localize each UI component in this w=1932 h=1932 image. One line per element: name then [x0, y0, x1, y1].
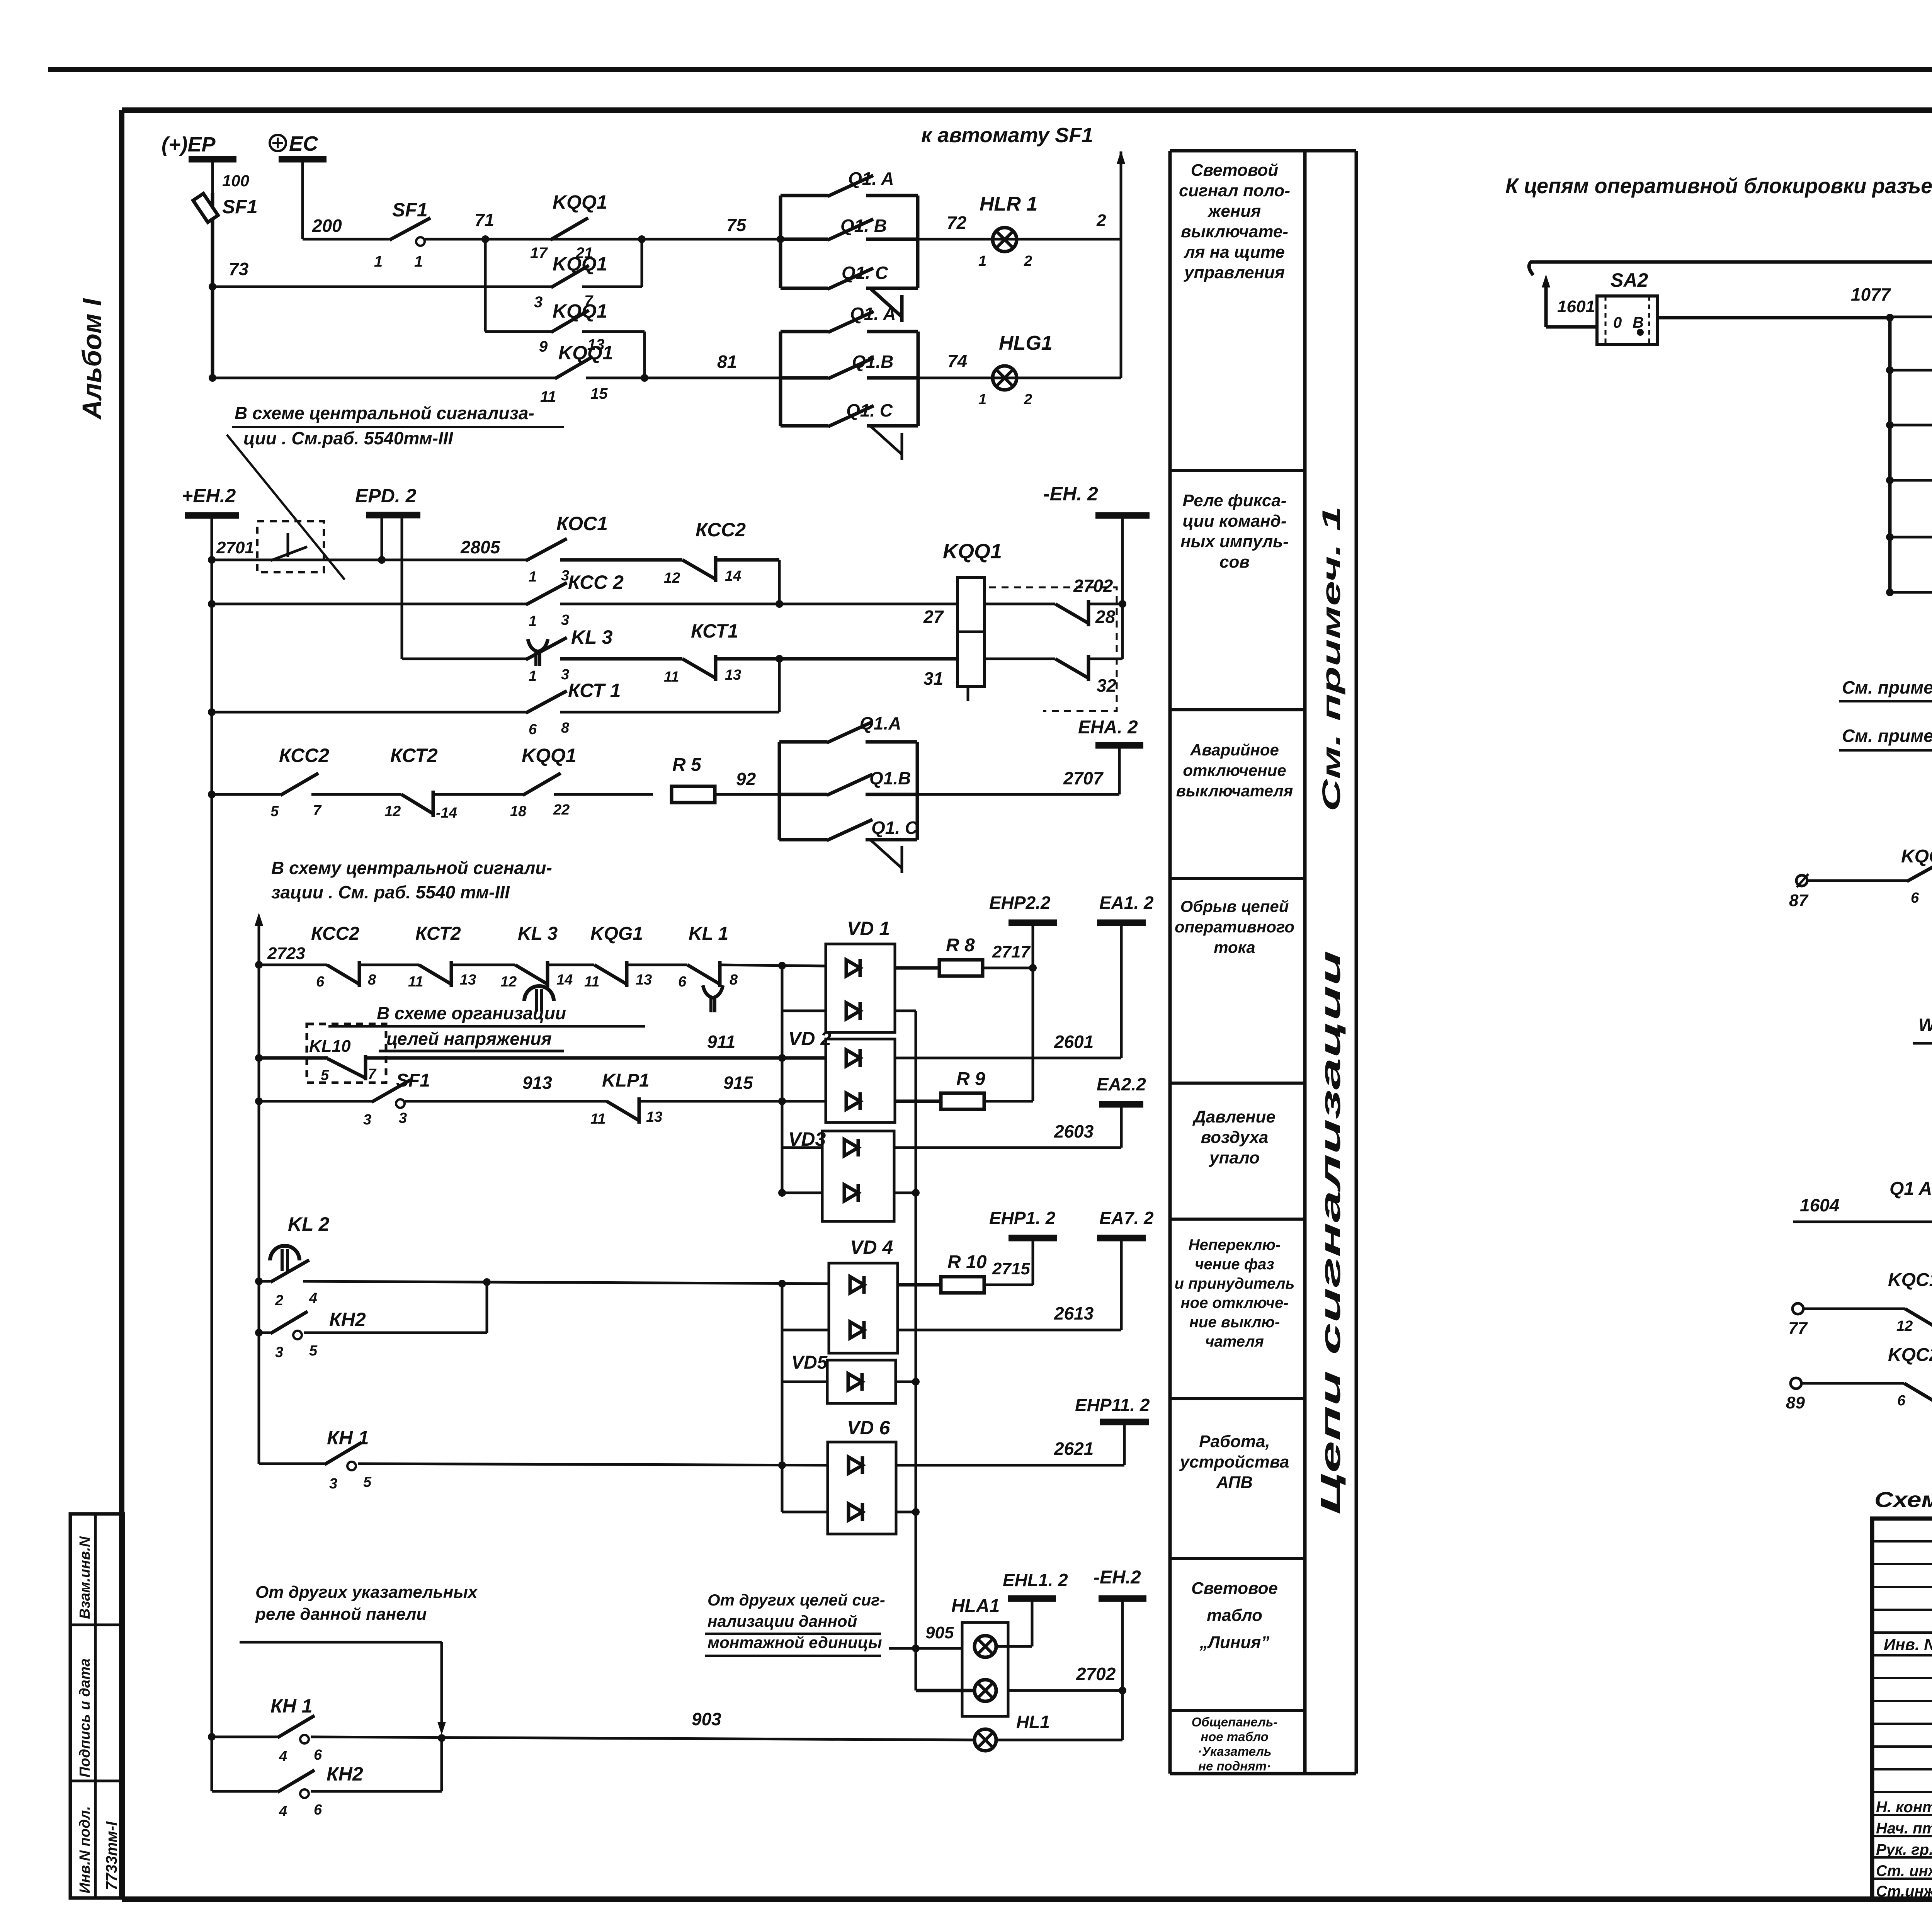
svg-text:75: 75: [726, 215, 747, 235]
svg-text:2701: 2701: [216, 538, 254, 557]
svg-text:89: 89: [1786, 1393, 1805, 1412]
svg-text:ное табло: ное табло: [1201, 1730, 1269, 1744]
svg-text:77: 77: [1788, 1319, 1808, 1338]
svg-text:В схему центральной сигнали-: В схему центральной сигнали-: [271, 858, 552, 878]
svg-text:Ст.инж.: Ст.инж.: [1876, 1883, 1932, 1900]
svg-text:2: 2: [1024, 391, 1032, 408]
svg-text:ЕА1. 2: ЕА1. 2: [1099, 893, 1154, 913]
svg-text:монтажной единицы: монтажной единицы: [707, 1633, 882, 1651]
svg-text:1604: 1604: [1800, 1195, 1839, 1215]
svg-text:ЕА7. 2: ЕА7. 2: [1099, 1208, 1154, 1228]
svg-text:ции команд-: ции команд-: [1182, 512, 1286, 531]
svg-text:ля на щите: ля на щите: [1184, 243, 1285, 262]
svg-text:1: 1: [529, 613, 537, 629]
svg-text:1: 1: [978, 391, 986, 408]
svg-text:От других указательных: От других указательных: [255, 1583, 478, 1602]
svg-text:KL 1: KL 1: [689, 923, 728, 944]
svg-text:К цепям оперативной блокировки: К цепям оперативной блокировки разъедини…: [1505, 173, 1932, 198]
svg-text:Q1 A: Q1 A: [1889, 1179, 1932, 1199]
svg-text:сов: сов: [1219, 553, 1250, 571]
svg-text:KL 2: KL 2: [288, 1213, 330, 1235]
svg-text:KLP1: KLP1: [602, 1070, 650, 1091]
svg-text:13: 13: [646, 1109, 662, 1125]
svg-text:7: 7: [313, 803, 322, 819]
svg-text:(+)ЕР: (+)ЕР: [162, 133, 216, 156]
svg-text:выключате-: выключате-: [1181, 222, 1288, 241]
svg-text:управления: управления: [1184, 263, 1285, 282]
svg-text:ЕНР11. 2: ЕНР11. 2: [1075, 1395, 1150, 1415]
svg-text:9: 9: [539, 338, 548, 355]
svg-text:8: 8: [561, 720, 570, 736]
svg-text:+ЕН.2: +ЕН.2: [182, 485, 236, 507]
svg-text:11: 11: [584, 974, 599, 990]
svg-text:АПВ: АПВ: [1216, 1473, 1253, 1492]
svg-text:12: 12: [1896, 1318, 1913, 1334]
svg-text:100: 100: [222, 172, 249, 190]
svg-text:Обрыв цепей: Обрыв цепей: [1180, 897, 1289, 915]
svg-text:12: 12: [500, 974, 517, 990]
svg-text:Q1.B: Q1.B: [869, 768, 911, 788]
svg-text:15: 15: [590, 385, 608, 402]
svg-text:74: 74: [947, 351, 967, 371]
svg-text:выключателя: выключателя: [1176, 782, 1293, 800]
svg-text:0: 0: [1613, 314, 1622, 331]
svg-text:Непереклю-: Непереклю-: [1189, 1236, 1281, 1253]
svg-text:Взам.инв.N: Взам.инв.N: [77, 1536, 93, 1619]
svg-text:1601: 1601: [1557, 297, 1595, 316]
svg-text:·Указатель: ·Указатель: [1198, 1744, 1272, 1759]
svg-text:2702: 2702: [1076, 1664, 1116, 1684]
svg-text:KQQ1: KQQ1: [943, 540, 1002, 563]
svg-text:SF1: SF1: [392, 199, 428, 221]
svg-text:VD 1: VD 1: [847, 918, 890, 939]
svg-text:Q1. A: Q1. A: [848, 168, 894, 189]
svg-text:6: 6: [1911, 890, 1919, 906]
svg-text:2613: 2613: [1054, 1303, 1094, 1323]
svg-text:R 5: R 5: [672, 755, 702, 775]
svg-text:жения: жения: [1207, 202, 1261, 221]
svg-text:зации . См. раб. 5540 тм-III: зации . См. раб. 5540 тм-III: [271, 882, 510, 902]
svg-text:КСС2: КСС2: [279, 745, 329, 766]
svg-text:Q1. B: Q1. B: [840, 216, 887, 236]
svg-text:к автомату SF1: к автомату SF1: [921, 124, 1093, 147]
svg-text:2702: 2702: [1073, 576, 1113, 596]
svg-text:11: 11: [540, 388, 556, 405]
svg-text:HLR 1: HLR 1: [980, 193, 1037, 215]
svg-text:18: 18: [510, 803, 527, 820]
svg-text:5: 5: [321, 1067, 329, 1083]
svg-text:не поднят·: не поднят·: [1198, 1759, 1271, 1773]
svg-text:VD5: VD5: [791, 1352, 828, 1373]
svg-text:KQC1: KQC1: [1888, 1270, 1932, 1290]
svg-text:См. примеч. 7: См. примеч. 7: [1842, 677, 1932, 697]
svg-text:тока: тока: [1214, 938, 1255, 956]
svg-text:HLA1: HLA1: [951, 1596, 1000, 1616]
svg-text:KQQ1: KQQ1: [522, 745, 577, 766]
svg-text:5: 5: [363, 1474, 372, 1490]
svg-text:12: 12: [664, 570, 680, 586]
svg-text:2707: 2707: [1063, 768, 1104, 788]
svg-text:Q1. C: Q1. C: [871, 818, 918, 838]
svg-text:73: 73: [229, 259, 249, 279]
svg-text:реле данной панели: реле данной панели: [255, 1605, 427, 1624]
svg-text:HL1: HL1: [1016, 1712, 1050, 1732]
svg-text:KL 3: KL 3: [571, 626, 613, 648]
svg-text:В схеме организации: В схеме организации: [377, 1003, 566, 1023]
svg-text:HLG1: HLG1: [999, 332, 1053, 354]
svg-text:KQC2: KQC2: [1888, 1345, 1932, 1365]
svg-text:2717: 2717: [992, 942, 1031, 961]
svg-text:KQC1: KQC1: [1901, 846, 1932, 867]
svg-text:Давление: Давление: [1192, 1107, 1276, 1126]
svg-text:-ЕН.2: -ЕН.2: [1094, 1567, 1141, 1588]
svg-text:2: 2: [275, 1293, 283, 1309]
svg-text:1: 1: [414, 253, 423, 270]
svg-text:Ст. инж.: Ст. инж.: [1876, 1862, 1932, 1879]
svg-text:6: 6: [1897, 1393, 1906, 1409]
svg-text:3: 3: [561, 612, 569, 628]
svg-text:5: 5: [309, 1343, 318, 1359]
svg-text:W1(W2)-087(083): W1(W2)-087(083): [1918, 1015, 1932, 1035]
svg-text:КСС2: КСС2: [311, 923, 359, 944]
svg-text:6: 6: [316, 974, 325, 990]
svg-text:R 10: R 10: [947, 1252, 987, 1272]
svg-text:2603: 2603: [1054, 1121, 1094, 1141]
svg-text:Н. контр.: Н. контр.: [1876, 1799, 1932, 1816]
svg-text:и принудитель: и принудитель: [1175, 1275, 1295, 1292]
svg-text:1077: 1077: [1851, 284, 1891, 304]
svg-text:„Линия”: „Линия”: [1199, 1633, 1269, 1652]
svg-text:27: 27: [923, 607, 944, 627]
svg-text:Общепанель-: Общепанель-: [1192, 1715, 1278, 1729]
svg-text:Реле фикса-: Реле фикса-: [1183, 491, 1287, 510]
svg-text:-ЕН. 2: -ЕН. 2: [1043, 483, 1098, 505]
svg-text:200: 200: [312, 216, 342, 236]
svg-text:3: 3: [275, 1344, 283, 1361]
svg-text:ции . См.раб. 5540тм-III: ции . См.раб. 5540тм-III: [243, 428, 454, 448]
svg-text:2715: 2715: [992, 1259, 1030, 1278]
svg-text:7733тм-I: 7733тм-I: [103, 1821, 120, 1890]
svg-text:2601: 2601: [1054, 1032, 1094, 1052]
svg-text:Нач. птп: Нач. птп: [1876, 1820, 1932, 1837]
svg-text:КН 1: КН 1: [327, 1427, 369, 1449]
svg-text:6: 6: [314, 1747, 322, 1763]
svg-text:13: 13: [460, 972, 476, 988]
svg-text:ных импуль-: ных импуль-: [1180, 532, 1289, 551]
svg-text:Альбом I: Альбом I: [77, 298, 107, 420]
svg-text:ЕА2.2: ЕА2.2: [1097, 1074, 1146, 1094]
svg-text:Q1.B: Q1.B: [852, 352, 893, 372]
svg-text:14: 14: [556, 972, 573, 988]
svg-text:ЕС: ЕС: [289, 132, 318, 155]
svg-text:1: 1: [529, 668, 537, 684]
svg-text:913: 913: [522, 1073, 552, 1093]
svg-text:2: 2: [1024, 253, 1032, 269]
svg-text:4: 4: [279, 1803, 287, 1820]
svg-text:устройства: устройства: [1179, 1452, 1289, 1471]
svg-text:17: 17: [530, 245, 548, 262]
svg-text:Q1. C: Q1. C: [846, 400, 893, 420]
svg-text:КСТ1: КСТ1: [691, 620, 738, 642]
svg-text:SF1: SF1: [396, 1070, 430, 1091]
svg-text:KL10: KL10: [309, 1037, 351, 1056]
svg-text:1: 1: [529, 569, 537, 585]
svg-text:4: 4: [309, 1290, 317, 1306]
svg-text:1: 1: [978, 253, 986, 269]
svg-text:8: 8: [368, 972, 376, 988]
svg-text:3: 3: [534, 294, 543, 311]
svg-text:905: 905: [925, 1623, 954, 1642]
svg-text:Световое: Световое: [1191, 1579, 1278, 1598]
svg-text:R 8: R 8: [946, 935, 975, 956]
svg-text:R 9: R 9: [956, 1069, 985, 1089]
svg-text:28: 28: [1095, 607, 1116, 627]
svg-text:KL 3: KL 3: [518, 923, 558, 944]
svg-text:81: 81: [717, 352, 737, 372]
svg-text:ЕНА. 2: ЕНА. 2: [1078, 717, 1138, 738]
svg-text:Инв. N: Инв. N: [1884, 1635, 1932, 1653]
svg-text:Подпись и дата: Подпись и дата: [77, 1658, 93, 1777]
svg-text:7: 7: [368, 1066, 377, 1082]
svg-text:КСС2: КСС2: [696, 519, 746, 541]
svg-text:32: 32: [1097, 675, 1117, 696]
svg-text:КСС 2: КСС 2: [568, 571, 624, 593]
svg-text:КОС1: КОС1: [556, 513, 608, 534]
svg-text:ЕНL1. 2: ЕНL1. 2: [1003, 1570, 1068, 1590]
svg-text:2805: 2805: [460, 537, 501, 557]
svg-text:Цепи сигнализации: Цепи сигнализации: [1315, 951, 1346, 1515]
svg-text:Световой: Световой: [1191, 161, 1279, 180]
svg-text:Q1. C: Q1. C: [842, 263, 888, 283]
svg-text:оперативного: оперативного: [1175, 918, 1294, 936]
svg-text:13: 13: [636, 972, 652, 988]
svg-text:1: 1: [374, 253, 383, 270]
svg-text:ЕНР1. 2: ЕНР1. 2: [989, 1208, 1056, 1228]
svg-text:-14: -14: [436, 805, 457, 821]
svg-text:КН2: КН2: [327, 1763, 363, 1785]
svg-text:См. примеч. 1: См. примеч. 1: [1317, 506, 1345, 811]
svg-text:Аварийное: Аварийное: [1190, 741, 1279, 759]
svg-text:11: 11: [664, 669, 679, 685]
svg-text:упало: упало: [1209, 1148, 1260, 1167]
svg-text:11: 11: [408, 974, 423, 990]
svg-text:KQQ1: KQQ1: [553, 191, 607, 213]
svg-text:911: 911: [707, 1032, 735, 1052]
svg-text:ние выклю-: ние выклю-: [1189, 1314, 1280, 1331]
svg-text:сигнал поло-: сигнал поло-: [1179, 181, 1290, 200]
svg-text:КСТ2: КСТ2: [390, 745, 438, 766]
svg-text:Инв.N подл.: Инв.N подл.: [77, 1806, 93, 1893]
svg-text:3: 3: [399, 1110, 407, 1126]
svg-text:5: 5: [270, 803, 279, 820]
svg-text:SF1: SF1: [222, 196, 258, 218]
svg-text:92: 92: [736, 769, 756, 789]
svg-text:табло: табло: [1207, 1606, 1262, 1625]
svg-text:2: 2: [1096, 211, 1106, 230]
svg-text:VD 4: VD 4: [850, 1236, 893, 1258]
svg-text:915: 915: [723, 1073, 753, 1093]
svg-text:КСТ2: КСТ2: [415, 923, 461, 944]
svg-text:От других целей сиг-: От других целей сиг-: [707, 1591, 885, 1609]
svg-text:903: 903: [692, 1709, 721, 1729]
svg-text:VD 6: VD 6: [847, 1417, 890, 1439]
svg-text:См. примеч. 6: См. примеч. 6: [1842, 726, 1932, 746]
svg-text:ЕРD. 2: ЕРD. 2: [355, 485, 417, 507]
svg-text:КСТ 1: КСТ 1: [568, 680, 621, 701]
svg-text:13: 13: [725, 667, 741, 683]
svg-text:Схема выполнена на листах 11,1: Схема выполнена на листах 11,12,13: [1874, 1487, 1932, 1512]
svg-text:14: 14: [725, 568, 741, 584]
svg-text:ЕНР2.2: ЕНР2.2: [989, 893, 1051, 913]
svg-text:Рук. гр.: Рук. гр.: [1876, 1841, 1932, 1858]
svg-text:целей напряжения: целей напряжения: [386, 1029, 552, 1049]
svg-text:В схеме центральной сигнализа-: В схеме центральной сигнализа-: [235, 403, 534, 423]
svg-text:8: 8: [730, 972, 738, 988]
svg-text:отключение: отключение: [1183, 761, 1286, 779]
svg-text:воздуха: воздуха: [1201, 1128, 1269, 1147]
svg-text:чателя: чателя: [1205, 1333, 1264, 1350]
svg-text:3: 3: [363, 1112, 371, 1128]
svg-text:КН2: КН2: [329, 1309, 366, 1330]
svg-text:72: 72: [947, 213, 967, 233]
svg-text:87: 87: [1789, 891, 1809, 910]
svg-text:ное отключе-: ное отключе-: [1180, 1294, 1288, 1311]
svg-text:11: 11: [590, 1111, 605, 1127]
svg-text:2723: 2723: [267, 944, 305, 963]
svg-text:В: В: [1633, 314, 1644, 331]
svg-text:Q1. A: Q1. A: [850, 304, 896, 324]
svg-text:4: 4: [279, 1748, 287, 1765]
svg-text:чение фаз: чение фаз: [1195, 1256, 1274, 1273]
svg-text:71: 71: [474, 210, 494, 230]
svg-text:22: 22: [553, 802, 570, 818]
svg-text:Работа,: Работа,: [1199, 1432, 1270, 1451]
svg-text:SA2: SA2: [1611, 269, 1648, 291]
svg-text:6: 6: [314, 1802, 322, 1818]
svg-text:3: 3: [329, 1476, 337, 1492]
svg-text:KQQ1: KQQ1: [553, 300, 607, 322]
svg-text:12: 12: [384, 803, 401, 820]
svg-text:КН 1: КН 1: [270, 1695, 313, 1717]
svg-text:2621: 2621: [1054, 1439, 1094, 1459]
svg-text:нализации данной: нализации данной: [707, 1612, 857, 1630]
svg-text:6: 6: [678, 974, 687, 990]
svg-text:KQG1: KQG1: [590, 923, 643, 944]
svg-text:Q1.A: Q1.A: [860, 713, 901, 733]
svg-text:31: 31: [923, 668, 943, 689]
svg-text:6: 6: [529, 721, 537, 738]
